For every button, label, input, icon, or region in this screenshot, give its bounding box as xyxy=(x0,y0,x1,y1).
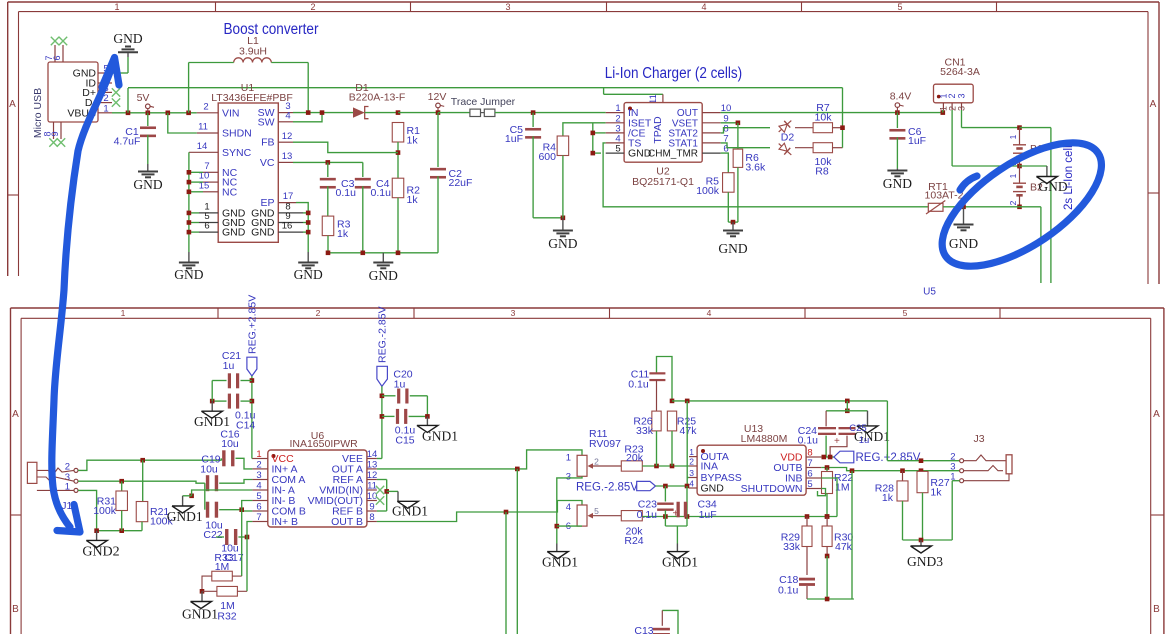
svg-text:0.1u: 0.1u xyxy=(637,509,658,521)
svg-text:10u: 10u xyxy=(221,438,239,450)
svg-text:B: B xyxy=(12,604,19,615)
svg-text:GND: GND xyxy=(548,236,577,251)
svg-text:47k: 47k xyxy=(680,425,698,437)
svg-text:22uF: 22uF xyxy=(449,177,473,189)
svg-text:10u: 10u xyxy=(200,464,218,476)
svg-text:1: 1 xyxy=(1008,173,1018,178)
svg-text:1: 1 xyxy=(103,103,108,114)
svg-text:0.1u: 0.1u xyxy=(371,187,392,199)
svg-text:C25: C25 xyxy=(849,423,866,434)
svg-text:LT3436EFE#PBF: LT3436EFE#PBF xyxy=(211,92,293,104)
svg-text:3: 3 xyxy=(566,471,571,482)
svg-text:1uF: 1uF xyxy=(908,135,926,147)
svg-text:VIN: VIN xyxy=(222,108,240,120)
svg-text:13: 13 xyxy=(367,459,378,470)
svg-text:C22: C22 xyxy=(203,529,222,541)
svg-text:2: 2 xyxy=(594,457,599,467)
svg-text:3: 3 xyxy=(957,93,967,98)
svg-text:GND1: GND1 xyxy=(194,414,230,429)
svg-text:12: 12 xyxy=(282,131,293,142)
svg-text:C15: C15 xyxy=(395,435,414,447)
svg-text:8: 8 xyxy=(807,448,812,459)
svg-text:Trace Jumper: Trace Jumper xyxy=(451,96,516,108)
svg-text:GND1: GND1 xyxy=(422,429,458,444)
svg-text:Li-Ion Charger (2 cells): Li-Ion Charger (2 cells) xyxy=(605,65,743,82)
svg-text:C13: C13 xyxy=(634,625,653,634)
svg-text:GND1: GND1 xyxy=(392,504,428,519)
svg-text:1u: 1u xyxy=(859,435,870,446)
svg-text:5264-3A: 5264-3A xyxy=(940,66,980,78)
svg-text:1: 1 xyxy=(566,452,571,463)
svg-text:A: A xyxy=(12,409,19,420)
svg-text:CHM_TMR: CHM_TMR xyxy=(648,149,698,160)
svg-text:0.1u: 0.1u xyxy=(778,585,799,597)
svg-text:5: 5 xyxy=(903,308,908,318)
svg-text:5: 5 xyxy=(256,491,261,502)
svg-text:3.9uH: 3.9uH xyxy=(239,46,267,58)
svg-text:5: 5 xyxy=(807,479,812,490)
svg-text:GND1: GND1 xyxy=(662,555,698,570)
svg-text:1k: 1k xyxy=(407,135,419,147)
svg-text:GND1: GND1 xyxy=(167,509,203,524)
svg-text:3.6k: 3.6k xyxy=(745,162,766,174)
svg-text:1uF: 1uF xyxy=(699,509,717,521)
svg-text:1: 1 xyxy=(121,308,126,318)
svg-text:4: 4 xyxy=(285,110,290,121)
svg-text:4: 4 xyxy=(701,2,706,12)
svg-text:11: 11 xyxy=(367,481,377,492)
svg-text:0.1u: 0.1u xyxy=(798,435,819,447)
svg-text:REG.-2.85V: REG.-2.85V xyxy=(576,482,638,494)
svg-text:47k: 47k xyxy=(835,541,853,553)
svg-text:2: 2 xyxy=(689,457,694,467)
svg-text:1: 1 xyxy=(114,2,119,12)
svg-text:B220A-13-F: B220A-13-F xyxy=(349,92,406,104)
svg-text:4: 4 xyxy=(566,502,571,513)
svg-text:LM4880M: LM4880M xyxy=(741,433,788,445)
svg-text:5: 5 xyxy=(615,144,620,155)
svg-text:1k: 1k xyxy=(930,487,942,499)
svg-text:Micro USB: Micro USB xyxy=(32,88,44,138)
svg-text:FB: FB xyxy=(261,137,274,149)
svg-text:A: A xyxy=(1150,99,1157,110)
svg-text:6: 6 xyxy=(256,502,261,513)
svg-text:GND: GND xyxy=(133,177,162,192)
svg-text:3: 3 xyxy=(505,2,510,12)
svg-text:SHDN: SHDN xyxy=(222,128,252,140)
svg-text:OUT B: OUT B xyxy=(331,516,363,528)
svg-text:6: 6 xyxy=(52,55,62,60)
svg-text:6: 6 xyxy=(807,469,812,480)
svg-text:12: 12 xyxy=(367,470,378,481)
svg-text:2: 2 xyxy=(316,308,321,318)
svg-text:4: 4 xyxy=(256,481,261,492)
svg-text:A: A xyxy=(1153,409,1160,420)
svg-text:SW: SW xyxy=(258,116,275,128)
svg-text:GND: GND xyxy=(251,227,275,239)
svg-text:13: 13 xyxy=(282,151,293,162)
svg-text:2: 2 xyxy=(1008,200,1018,205)
svg-text:1uF: 1uF xyxy=(505,133,523,145)
svg-text:B: B xyxy=(1153,604,1160,615)
svg-text:4.7uF: 4.7uF xyxy=(114,136,141,148)
svg-text:1u: 1u xyxy=(223,360,235,372)
svg-text:0.1u: 0.1u xyxy=(336,187,357,199)
svg-text:BQ25171-Q1: BQ25171-Q1 xyxy=(632,176,694,188)
svg-text:10k: 10k xyxy=(815,112,833,124)
svg-text:9: 9 xyxy=(50,131,60,136)
svg-text:8: 8 xyxy=(369,512,374,523)
svg-text:12V: 12V xyxy=(428,91,447,103)
svg-text:1: 1 xyxy=(256,449,261,460)
svg-text:2s Li-Ion cells: 2s Li-Ion cells xyxy=(1063,139,1075,210)
svg-text:GND: GND xyxy=(701,483,725,495)
svg-text:600: 600 xyxy=(538,151,556,163)
svg-text:20k: 20k xyxy=(626,452,644,464)
svg-text:GND: GND xyxy=(222,227,246,239)
svg-text:J3: J3 xyxy=(973,433,984,445)
svg-text:5: 5 xyxy=(897,2,902,12)
svg-text:9: 9 xyxy=(369,502,374,513)
svg-text:0.1u: 0.1u xyxy=(628,379,649,391)
svg-text:REG.+2.85V: REG.+2.85V xyxy=(247,295,259,354)
svg-text:NC: NC xyxy=(222,186,238,198)
svg-text:VC: VC xyxy=(260,157,275,169)
svg-text:3: 3 xyxy=(511,308,516,318)
svg-text:33k: 33k xyxy=(783,541,801,553)
svg-text:5V: 5V xyxy=(137,92,150,104)
svg-text:5: 5 xyxy=(594,506,599,516)
svg-text:RV097: RV097 xyxy=(589,438,621,450)
svg-text:SYNC: SYNC xyxy=(222,147,252,159)
svg-text:14: 14 xyxy=(197,141,208,152)
svg-text:+: + xyxy=(834,436,840,447)
svg-text:TPAD: TPAD xyxy=(652,116,664,144)
svg-text:SHUTDOWN: SHUTDOWN xyxy=(741,483,803,495)
svg-text:GND: GND xyxy=(883,176,912,191)
svg-text:GND3: GND3 xyxy=(907,554,943,569)
svg-text:GND2: GND2 xyxy=(82,544,119,559)
svg-text:2: 2 xyxy=(310,2,315,12)
svg-text:R8: R8 xyxy=(815,166,829,178)
svg-text:2: 2 xyxy=(203,101,208,112)
svg-text:D2: D2 xyxy=(781,132,795,144)
svg-text:Boost converter: Boost converter xyxy=(224,21,319,38)
svg-text:7: 7 xyxy=(256,512,261,523)
svg-text:INA: INA xyxy=(701,461,719,473)
svg-text:1M: 1M xyxy=(220,600,235,612)
svg-text:R24: R24 xyxy=(624,535,643,547)
svg-text:GND1: GND1 xyxy=(542,555,578,570)
svg-text:2: 2 xyxy=(256,459,261,470)
svg-text:GND: GND xyxy=(949,236,978,251)
svg-text:GND1: GND1 xyxy=(182,607,218,622)
svg-text:4: 4 xyxy=(689,479,694,489)
svg-text:REG.-2.85V: REG.-2.85V xyxy=(377,306,389,363)
svg-text:3: 3 xyxy=(256,470,261,481)
svg-text:GND: GND xyxy=(369,268,398,283)
svg-text:100k: 100k xyxy=(696,185,720,197)
svg-text:8.4V: 8.4V xyxy=(890,91,912,103)
svg-text:REG.+2.85V: REG.+2.85V xyxy=(856,452,921,464)
svg-text:4: 4 xyxy=(707,308,712,318)
svg-text:1k: 1k xyxy=(407,194,419,206)
svg-text:1k: 1k xyxy=(337,228,349,240)
svg-text:GND: GND xyxy=(174,267,203,282)
svg-text:16: 16 xyxy=(282,221,293,232)
svg-text:14: 14 xyxy=(367,449,378,460)
svg-text:11: 11 xyxy=(198,122,208,133)
svg-text:1: 1 xyxy=(1008,134,1018,139)
svg-text:IN+ B: IN+ B xyxy=(272,516,299,528)
svg-text:GND: GND xyxy=(294,267,323,282)
svg-text:100k: 100k xyxy=(93,505,117,517)
svg-text:GND: GND xyxy=(718,241,747,256)
svg-text:6: 6 xyxy=(204,221,209,232)
svg-text:GND: GND xyxy=(113,31,142,46)
svg-text:INA1650IPWR: INA1650IPWR xyxy=(289,438,358,450)
svg-text:A: A xyxy=(9,99,16,110)
svg-text:7: 7 xyxy=(807,458,812,469)
svg-text:U5: U5 xyxy=(923,287,936,298)
svg-text:33k: 33k xyxy=(636,425,654,437)
svg-text:1k: 1k xyxy=(882,492,894,504)
svg-text:R32: R32 xyxy=(217,611,236,623)
svg-text:3: 3 xyxy=(689,468,694,478)
